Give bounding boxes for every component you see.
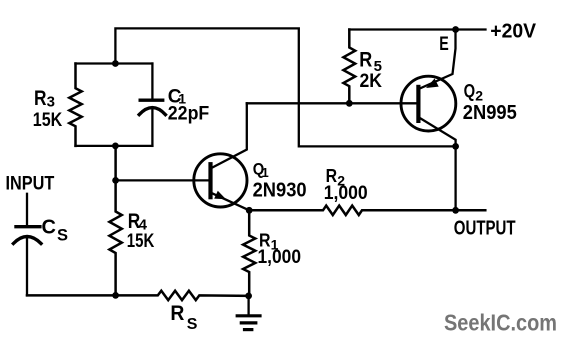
wire feedback: R3/C1 top to Q2 collector node xyxy=(115,28,455,146)
svg-text:1: 1 xyxy=(262,165,269,180)
wire +20V rail xyxy=(349,28,485,30)
node ground junction xyxy=(245,293,252,300)
wire output line with resistor R2 xyxy=(249,206,485,215)
resistor R3 xyxy=(69,64,81,146)
ground symbol xyxy=(247,296,249,315)
node R5 bottom junction xyxy=(346,100,353,107)
wire R3/C1 box bottom rail xyxy=(76,145,153,147)
svg-text:15K: 15K xyxy=(127,230,155,252)
transistor Q2 emitter lead xyxy=(419,30,456,90)
svg-text:INPUT: INPUT xyxy=(6,173,55,195)
wire Q1 base xyxy=(116,179,211,181)
svg-text:22pF: 22pF xyxy=(168,103,210,125)
svg-text:2K: 2K xyxy=(360,70,383,92)
transistor Q1 emitter arrow xyxy=(214,191,226,200)
node Q2 collector junction xyxy=(452,143,459,150)
svg-text:Q: Q xyxy=(464,81,476,101)
svg-text:2N995: 2N995 xyxy=(463,102,517,124)
svg-text:OUTPUT: OUTPUT xyxy=(454,217,516,239)
node output junction xyxy=(452,207,459,214)
svg-text:S: S xyxy=(57,227,68,245)
svg-text:3: 3 xyxy=(47,94,55,111)
node R3/C1 bottom junction xyxy=(112,143,119,150)
transistor Q2 emitter arrow (PNP, points to base) xyxy=(426,79,439,89)
transistor Q1 collector lead xyxy=(211,103,247,168)
svg-text:+20V: +20V xyxy=(490,20,536,42)
svg-text:15K: 15K xyxy=(33,109,63,131)
svg-text:1,000: 1,000 xyxy=(324,182,368,204)
svg-text:R: R xyxy=(359,49,372,72)
transistor Q1 circle xyxy=(194,154,247,207)
capacitor Cs xyxy=(26,194,28,226)
svg-text:R: R xyxy=(34,87,47,110)
wire Q1 collector to Q2 base xyxy=(247,102,419,104)
transistor Q1 base bar xyxy=(208,164,212,197)
capacitor C1 xyxy=(151,64,153,101)
transistor Q2 collector lead xyxy=(419,118,456,147)
node R4 bottom junction xyxy=(112,292,119,299)
node Q1 base junction xyxy=(112,177,119,184)
wire R3/C1 box top rail xyxy=(76,62,153,64)
node R3/C1 top junction xyxy=(112,60,119,67)
svg-text:E: E xyxy=(439,33,449,55)
svg-text:C: C xyxy=(42,217,56,239)
wire bottom with resistor Rs xyxy=(27,291,249,300)
node Q1 emitter junction xyxy=(246,207,253,214)
svg-text:R: R xyxy=(170,302,184,325)
wire Q2 collector to output node xyxy=(454,146,456,210)
svg-text:2N930: 2N930 xyxy=(253,179,307,201)
transistor Q2 base bar xyxy=(416,87,420,121)
svg-text:1,000: 1,000 xyxy=(258,246,302,268)
resistor R5 xyxy=(343,30,355,104)
node +20V junction xyxy=(452,26,459,33)
transistor Q2 circle xyxy=(401,76,456,131)
svg-text:S: S xyxy=(187,316,198,333)
resistor R1 xyxy=(243,210,255,296)
resistor R4 (left rail) xyxy=(109,146,121,296)
svg-text:SeekIC.com: SeekIC.com xyxy=(444,309,557,335)
transistor Q1 emitter lead xyxy=(211,193,250,211)
